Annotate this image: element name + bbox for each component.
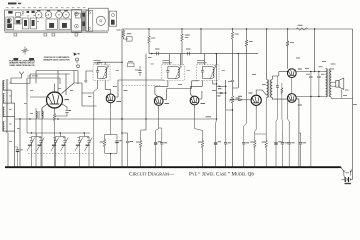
svg-text:PANEL SEEN FROM BELOW: PANEL SEEN FROM BELOW — [10, 64, 35, 67]
volume control VR1 — [231, 80, 234, 82]
decoupled supply rail — [149, 53, 258, 55]
main negative rail wire — [121, 29, 123, 167]
trimmer capacitor x=41 — [40, 137, 42, 141]
IFT2 feed drops — [170, 54, 181, 65]
feedthrough cap C13 — [188, 52, 190, 56]
IF transformer IFT2 (L7/L8) — [162, 65, 185, 81]
capacitor at x=243.8 — [243, 133, 245, 142]
chassis side hatch bar — [82, 11, 86, 30]
note text block right — [43, 57, 70, 61]
TR1 base wire — [30, 96, 47, 98]
trimmer capacitor x=89 — [88, 137, 90, 141]
coupling capacitor C20 — [230, 99, 239, 101]
electrolytic at x=215.6 — [215, 133, 217, 142]
speaker LS — [336, 80, 339, 87]
TR3 collector up to IFT3 — [163, 80, 198, 99]
TR1 left lead to oscillator — [42, 104, 48, 117]
TR1 emitter resistor — [54, 108, 56, 111]
collector rails to output transformer — [296, 71, 325, 73]
oscillator coil returns — [36, 133, 42, 167]
speaker return to battery line — [342, 97, 353, 99]
tuning gang capacitor on chassis — [72, 10, 82, 33]
trimmer adjustment detail — [13, 47, 34, 61]
IF filter cap — [220, 92, 223, 93]
svg-text:EXT. AERIAL: EXT. AERIAL — [27, 74, 38, 77]
IFT2 secondary to TR3 — [155, 80, 168, 96]
rail drop R2 — [148, 28, 149, 29]
rail feed resistor — [122, 30, 125, 39]
capacitor at x=225.7 — [225, 133, 227, 142]
resistor at x=254.8 — [254, 133, 256, 138]
inline resistor R16 — [297, 28, 308, 31]
IFT3 secondary out — [190, 80, 202, 96]
IF transformer cans on chassis — [35, 12, 42, 19]
electrolytic at x=276 — [275, 133, 277, 142]
trimmer capacitor x=65 — [64, 137, 66, 141]
on/off switch S2 — [341, 167, 344, 171]
electrolytic C11 — [116, 135, 118, 140]
IF transformer IFT3 (L9/L10) — [197, 65, 220, 81]
note text block left — [9, 60, 35, 67]
transistor TR7 output — [287, 94, 296, 103]
resistor R7 — [104, 135, 106, 139]
svg-text:BENEATH GANG CAPACITOR: BENEATH GANG CAPACITOR — [43, 58, 70, 61]
first IF bias network — [94, 88, 98, 167]
wire mesh above TR1 — [27, 71, 78, 79]
rail drop wire — [200, 28, 201, 29]
drive frame — [86, 10, 93, 31]
TR5 collector to driver transformer — [256, 90, 266, 95]
TR2 emitter split — [105, 133, 118, 135]
AGC dashed line — [123, 85, 160, 87]
capacitor at x=300.6 — [300, 133, 302, 142]
feedthrough cap C9 — [157, 52, 159, 56]
taps to tuning section — [11, 81, 30, 84]
resistor at x=140.6 — [140, 133, 142, 138]
capacitor C12 — [121, 132, 122, 133]
TR2 emitter — [110, 103, 112, 109]
tone capacitor C33 — [317, 76, 320, 78]
rail drop thermistor R9 — [181, 28, 182, 29]
rail drop to output bias resistor R25 — [287, 28, 288, 29]
svg-text:PYE “ JEWEL CASE ” MODEL Q6: PYE “ JEWEL CASE ” MODEL Q6 — [189, 170, 254, 177]
detector diode OA70 — [216, 54, 218, 119]
trimmer pair bracket x=36.25 — [32, 133, 42, 137]
AGC electrolytic C3 — [15, 147, 18, 150]
chassis small parts — [6, 12, 80, 30]
interior tiny labels — [21, 14, 23, 17]
secondary to output bases — [272, 72, 287, 80]
electrolytic at x=155.6 — [155, 133, 157, 142]
output transformer T2 — [326, 69, 332, 98]
gang coupling dashed line — [28, 153, 93, 155]
bias components — [276, 86, 279, 87]
loudspeaker on chassis — [96, 16, 105, 25]
bus junction dots — [7, 166, 9, 168]
TR7 emitter line — [296, 99, 299, 167]
tiny reference marks above chassis edge — [6, 6, 8, 9]
driver transformer T1 — [267, 80, 273, 98]
external aerial terminal — [19, 72, 24, 78]
feedback capacitor C32 — [310, 71, 311, 72]
earth bus bar — [5, 166, 341, 168]
aerial coupling wire — [11, 78, 22, 81]
capacitor at x=282.4 — [281, 133, 283, 142]
TR1 top lead — [54, 84, 56, 93]
detector load wire — [226, 80, 233, 110]
AGC line — [15, 118, 217, 120]
chassis mounting feet — [14, 33, 78, 36]
TR1 bypass cap — [61, 104, 67, 111]
tuning gang row — [27, 132, 90, 134]
svg-text:CIRCUIT DIAGRAM—: CIRCUIT DIAGRAM— — [129, 171, 175, 177]
chassis component-layout drawing — [5, 8, 117, 33]
TR4 collector to detector — [199, 84, 213, 99]
trimmer capacitor x=31.5 — [31, 137, 33, 141]
HT supply rail — [122, 28, 353, 30]
coupling to IFT1 — [86, 71, 93, 83]
capacitor at x=289.2 — [288, 133, 290, 142]
trimmer pair bracket x=84.25 — [80, 133, 90, 137]
IF transformer IFT1 (L5/L6) — [93, 65, 110, 81]
TR2 collector to IFT2 — [115, 80, 164, 97]
ferrite rod aerial windings L1-L4 — [3, 79, 11, 133]
rail drop to output stage — [314, 28, 315, 29]
rail drop R12 — [232, 28, 233, 29]
oscillator coil L3/L4 — [36, 108, 43, 133]
capacitor at x=161.8 — [161, 133, 163, 142]
transistor TR1 mixer-oscillator — [47, 92, 63, 108]
chassis caption bar — [8, 3, 17, 5]
misc value labels — [116, 69, 120, 72]
TR4 emitter — [194, 105, 196, 109]
transistor TR5 AF driver — [251, 95, 261, 105]
trimmer capacitor x=79.5 — [79, 137, 81, 141]
trimmer pair bracket x=60.25 — [56, 133, 66, 137]
resistor at x=202.5 — [202, 133, 204, 138]
rail drop R18 — [246, 28, 247, 29]
battery feed from rail — [352, 29, 354, 177]
transistor TR6 output — [287, 69, 296, 78]
aerial tap bus — [3, 81, 5, 132]
battery B1 9V — [342, 177, 353, 180]
join bar — [105, 154, 118, 168]
resistor at x=266.2 — [265, 133, 267, 138]
transistor TR3 2nd IF amplifier — [154, 97, 163, 106]
trimmer capacitor x=55.5 — [55, 137, 57, 141]
TR5 emitter — [255, 105, 257, 109]
decoupling resistor R5 — [141, 54, 146, 130]
key glyphs — [74, 53, 78, 56]
wire drops to earth bus — [7, 133, 9, 167]
IFT3 feed drops — [205, 54, 217, 65]
TR3 emitter network — [158, 105, 160, 109]
dial drive box — [112, 14, 115, 17]
transistor TR4 3rd IF amplifier — [190, 96, 199, 105]
transistor TR2 1st IF amplifier — [106, 94, 115, 103]
volume feed drop — [233, 54, 239, 88]
rail drop to driver transformer — [266, 28, 267, 29]
